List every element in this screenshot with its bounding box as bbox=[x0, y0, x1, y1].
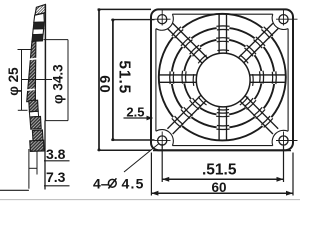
label 4-phi4.5 bbox=[93, 175, 145, 191]
svg-text:4.5: 4.5 bbox=[122, 175, 145, 191]
svg-text:51.5: 51.5 bbox=[116, 60, 133, 94]
dim 60 left line bbox=[98, 9, 100, 150]
grill ring 3 bbox=[159, 14, 286, 141]
dim phi25 line bbox=[21, 50, 23, 111]
dim phi34.3 bottom tick bbox=[45, 120, 68, 122]
white gap box 2 bbox=[29, 111, 38, 117]
spoke 7 bbox=[238, 23, 273, 58]
tick between extensions bbox=[29, 167, 37, 169]
extension bottom edge left bbox=[98, 149, 152, 151]
hatched cone band bbox=[27, 41, 36, 101]
inner flange right line bbox=[287, 29, 289, 132]
grill ring 1 bbox=[184, 39, 262, 114]
dim phi34.3 top tick bbox=[44, 39, 69, 41]
extension top edge left bbox=[98, 8, 152, 10]
hole BL bbox=[158, 136, 167, 145]
hole TL center marks bbox=[155, 18, 171, 20]
spoke 1 bbox=[245, 96, 278, 129]
svg-text:60: 60 bbox=[96, 75, 112, 94]
top cap section (frame + outer ring) bbox=[35, 4, 45, 15]
dim 60 left end dots bbox=[98, 8, 101, 11]
band white breaks bbox=[27, 59, 37, 60]
svg-text:7.3: 7.3 bbox=[46, 169, 66, 185]
grill ring 2 bbox=[172, 28, 275, 128]
spoke 6 bbox=[218, 14, 220, 54]
inner flange bottom line bbox=[172, 145, 272, 147]
hole BR bbox=[279, 136, 288, 145]
frame mounting face line bbox=[44, 4, 46, 120]
spoke 5 bbox=[167, 28, 202, 63]
inner flange left line bbox=[155, 29, 157, 132]
white gap box below cap bbox=[34, 13, 45, 22]
face extension line down bbox=[44, 121, 46, 190]
extension line mid short bbox=[36, 151, 38, 175]
white gap box 1b bbox=[33, 29, 44, 35]
extension top holes left bbox=[111, 19, 154, 21]
extension bottom holes left bbox=[111, 139, 154, 141]
spoke 3 bbox=[173, 101, 206, 134]
band right edge line bbox=[34, 81, 36, 110]
svg-text:.51.5: .51.5 bbox=[202, 162, 237, 179]
grill: central opening bbox=[196, 53, 250, 107]
center axis line bbox=[22, 79, 52, 81]
ring section B bbox=[30, 117, 41, 130]
corner boss arc BL bbox=[156, 130, 173, 146]
junction pads bbox=[170, 26, 277, 130]
corner boss arc TL bbox=[156, 14, 173, 30]
corner boss arc TR bbox=[272, 14, 288, 29]
spoke 4 bbox=[159, 81, 196, 83]
bottom dim 60 line bbox=[151, 192, 293, 194]
svg-text:3.8: 3.8 bbox=[46, 146, 66, 162]
arrows bottom 60 bbox=[151, 191, 293, 196]
dark ring section 1 bbox=[33, 22, 44, 29]
inner flange top line bbox=[172, 13, 272, 15]
square frame bbox=[151, 9, 293, 150]
corner boss arc BR bbox=[272, 130, 288, 145]
bottom frame section bbox=[30, 140, 44, 151]
dim 2.5 line bbox=[124, 117, 153, 119]
underline 3.8 bbox=[44, 160, 70, 162]
svg-text:φ 25: φ 25 bbox=[6, 67, 21, 96]
underline 7.3 bbox=[44, 185, 70, 187]
hole TL bbox=[158, 15, 167, 24]
svg-text:φ 34.3: φ 34.3 bbox=[50, 64, 65, 104]
svg-text:60: 60 bbox=[212, 180, 227, 195]
dim 51.5 left end dots bbox=[111, 19, 114, 22]
ring section C bbox=[32, 130, 43, 141]
hole TR center marks bbox=[276, 18, 298, 20]
dim phi34.3 line bbox=[67, 40, 69, 121]
faint scan line at bottom bbox=[0, 199, 300, 201]
dim phi25 bottom tick bbox=[18, 109, 28, 111]
spoke 2 bbox=[226, 107, 228, 141]
leader line to hole BL bbox=[124, 144, 159, 173]
spoke 0 bbox=[250, 74, 286, 76]
base line bottom-left bbox=[0, 189, 29, 191]
arrows bottom 51.5 bbox=[162, 177, 283, 182]
hole BL center marks bbox=[155, 140, 171, 142]
dim 51.5 left line bbox=[112, 20, 114, 140]
junction white covers bbox=[172, 28, 275, 128]
bottom edge thickening bbox=[153, 150, 291, 152]
bottom dim 51.5 extension lines bbox=[161, 144, 163, 182]
svg-text:2.5: 2.5 bbox=[126, 105, 144, 120]
dim phi25 top tick bbox=[18, 49, 32, 51]
hole TR bbox=[279, 15, 288, 24]
arrow 2.5 bbox=[147, 116, 153, 121]
ring section A bbox=[29, 100, 38, 112]
hole BR center marks bbox=[276, 140, 298, 142]
svg-text:4–: 4– bbox=[93, 175, 109, 191]
bottom dim 60 extension lines bbox=[150, 153, 152, 196]
bottom dim 51.5 line bbox=[162, 178, 283, 180]
dark ring section 2 bbox=[32, 34, 43, 41]
extension line left short bbox=[28, 149, 30, 189]
spokes bbox=[159, 14, 286, 140]
